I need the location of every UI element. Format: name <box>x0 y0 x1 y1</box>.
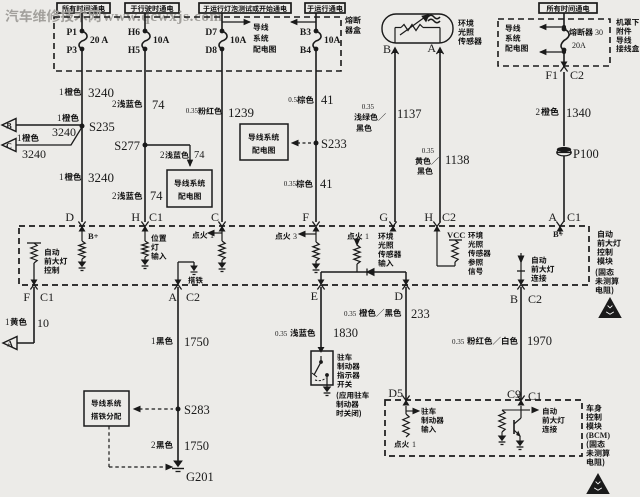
svg-text:P1: P1 <box>66 28 77 38</box>
svg-text:D: D <box>65 210 74 224</box>
svg-text:C: C <box>6 142 12 151</box>
svg-text:1340: 1340 <box>566 106 591 120</box>
svg-text:3240: 3240 <box>52 125 76 139</box>
svg-text:10: 10 <box>37 316 49 330</box>
svg-text:1: 1 <box>151 336 156 346</box>
svg-text:0.35: 0.35 <box>275 330 288 338</box>
svg-text:G201: G201 <box>186 470 214 484</box>
svg-text:P100: P100 <box>573 147 599 161</box>
svg-text:B+: B+ <box>88 231 99 241</box>
svg-text:10A: 10A <box>230 36 247 46</box>
svg-text:1: 1 <box>17 133 22 143</box>
svg-text:20A: 20A <box>572 41 586 50</box>
svg-text:A: A <box>427 41 436 55</box>
svg-text:H: H <box>424 210 433 224</box>
svg-text:C1: C1 <box>149 210 163 224</box>
svg-text:0.35: 0.35 <box>422 147 435 155</box>
svg-text:74: 74 <box>152 98 165 112</box>
svg-text:1: 1 <box>5 317 10 327</box>
svg-text:0.35: 0.35 <box>362 103 375 111</box>
svg-text:3240: 3240 <box>88 170 114 185</box>
svg-text:B4: B4 <box>300 46 311 56</box>
svg-text:H6: H6 <box>128 28 140 38</box>
svg-text:F1: F1 <box>545 68 558 82</box>
svg-text:1: 1 <box>57 113 62 123</box>
svg-text:10A: 10A <box>324 36 341 46</box>
svg-text:2: 2 <box>112 99 117 109</box>
svg-text:C2: C2 <box>442 210 456 224</box>
svg-text:H: H <box>131 210 140 224</box>
svg-text:C2: C2 <box>186 290 200 304</box>
svg-text:A: A <box>168 290 177 304</box>
svg-text:1: 1 <box>412 440 416 449</box>
svg-text:74: 74 <box>194 150 205 161</box>
svg-text:0.35: 0.35 <box>284 180 297 188</box>
svg-text:D8: D8 <box>205 46 217 56</box>
svg-text:1239: 1239 <box>228 105 254 120</box>
svg-text:41: 41 <box>320 177 333 191</box>
svg-text:1750: 1750 <box>184 335 209 349</box>
svg-text:1138: 1138 <box>445 153 470 167</box>
svg-text:2: 2 <box>536 107 541 117</box>
svg-text:1137: 1137 <box>397 107 422 121</box>
svg-text:C2: C2 <box>528 292 542 306</box>
svg-text:S277: S277 <box>114 139 140 153</box>
svg-text:A: A <box>7 340 13 349</box>
svg-text:2: 2 <box>151 440 156 450</box>
svg-text:74: 74 <box>150 189 163 203</box>
svg-text:D7: D7 <box>205 28 217 38</box>
svg-text:C9: C9 <box>507 387 521 401</box>
svg-text:F: F <box>302 210 309 224</box>
svg-text:1750: 1750 <box>184 439 209 453</box>
svg-text:F: F <box>23 290 30 304</box>
svg-text:0.35: 0.35 <box>452 338 465 346</box>
svg-text:E: E <box>311 289 318 303</box>
svg-text:C2: C2 <box>570 68 584 82</box>
svg-text:C1: C1 <box>528 389 542 403</box>
svg-text:B: B <box>6 122 12 131</box>
svg-text:10A: 10A <box>153 36 170 46</box>
svg-text:B: B <box>510 292 518 306</box>
svg-text:0.35: 0.35 <box>186 107 199 115</box>
svg-text:3: 3 <box>293 232 297 241</box>
svg-text:30: 30 <box>595 28 603 37</box>
svg-text:H5: H5 <box>128 46 140 56</box>
svg-text:1: 1 <box>59 87 64 97</box>
svg-text:B3: B3 <box>300 28 311 38</box>
svg-text:20 A: 20 A <box>90 36 108 46</box>
svg-text:1: 1 <box>59 172 64 182</box>
svg-text:C1: C1 <box>567 210 581 224</box>
svg-text:3240: 3240 <box>22 147 46 161</box>
svg-text:(BCM): (BCM) <box>586 431 610 440</box>
svg-text:C: C <box>211 210 219 224</box>
svg-text:1: 1 <box>365 232 369 241</box>
svg-text:233: 233 <box>411 307 430 321</box>
svg-text:VCC: VCC <box>447 230 465 240</box>
svg-text:2: 2 <box>160 150 165 160</box>
svg-text:0.35: 0.35 <box>344 310 357 318</box>
svg-text:41: 41 <box>321 93 334 107</box>
svg-text:D5: D5 <box>388 386 403 400</box>
svg-text:C1: C1 <box>40 290 54 304</box>
svg-text:S233: S233 <box>321 137 347 151</box>
svg-text:1970: 1970 <box>527 334 552 348</box>
svg-text:G: G <box>379 210 388 224</box>
svg-text:S235: S235 <box>89 120 115 134</box>
svg-text:P3: P3 <box>66 46 77 56</box>
svg-text:S283: S283 <box>184 403 210 417</box>
svg-text:0.5: 0.5 <box>288 96 297 104</box>
svg-text:1830: 1830 <box>333 326 358 340</box>
svg-text:B: B <box>383 42 391 56</box>
svg-text:2: 2 <box>112 191 117 201</box>
svg-text:B+: B+ <box>553 229 564 239</box>
svg-text:D: D <box>394 289 403 303</box>
svg-text:3240: 3240 <box>88 85 114 100</box>
